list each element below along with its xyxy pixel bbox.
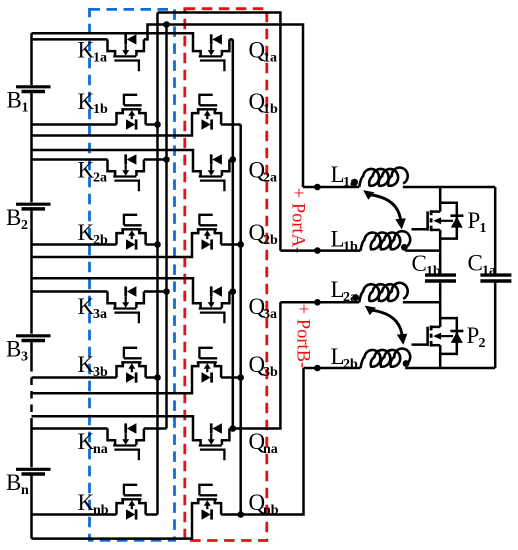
blue dashed box (K switch group) xyxy=(90,9,175,540)
wire K1a riser and top PortA+ run to L1a drop xyxy=(144,25,303,188)
inductor L2b label xyxy=(331,344,359,372)
inductor L1a polarity dot xyxy=(351,179,358,186)
junction bus PortA+ top xyxy=(163,21,170,28)
battery B3 xyxy=(16,336,51,341)
wire battery segment Bn+ (solid part) xyxy=(30,422,33,467)
battery Bn label xyxy=(6,470,29,498)
svg-text:1a: 1a xyxy=(93,50,107,65)
wire Q1a to bus xyxy=(229,38,232,41)
wire C1a bottom xyxy=(494,283,497,368)
transistor P2 label xyxy=(467,323,486,351)
wire K1b to bus xyxy=(146,123,158,126)
label PortA xyxy=(288,188,308,253)
transistor Qna xyxy=(193,423,229,460)
wire L2a output to P2 xyxy=(403,301,440,304)
transistor P2 xyxy=(412,302,464,366)
svg-text:2b: 2b xyxy=(93,233,108,248)
wire node2 rail to Q3a (steps down) xyxy=(32,278,194,291)
svg-text:2a: 2a xyxy=(263,171,277,186)
transistor Qna label xyxy=(249,429,278,457)
svg-text:P: P xyxy=(467,323,480,348)
node PortB- terminal xyxy=(314,365,321,372)
svg-text:nb: nb xyxy=(263,503,279,518)
wire bus PortA- (K b-switch bus) xyxy=(156,13,159,515)
svg-text:n: n xyxy=(21,483,29,498)
inductor L2a polarity dot xyxy=(352,294,359,301)
svg-text:K: K xyxy=(78,220,95,245)
node PortB+ terminal xyxy=(314,299,321,306)
wire L2a input xyxy=(280,301,359,304)
transistor Qnb label xyxy=(249,490,279,518)
wire Qna run to L2a riser xyxy=(233,302,281,428)
transistor K2b label xyxy=(78,220,109,248)
transistor K3b xyxy=(117,348,146,383)
wire C1a top xyxy=(494,187,497,273)
battery Bn xyxy=(16,469,51,474)
junction Q2b-bus xyxy=(237,241,244,248)
transistor P1 xyxy=(412,187,464,251)
wire L1a output to P1 and C1a xyxy=(403,186,495,189)
transistor K1b xyxy=(117,95,146,130)
red dashed box (Q switch group) xyxy=(185,9,267,541)
svg-text:3a: 3a xyxy=(93,307,107,322)
wire battery segment B2- to B3+ xyxy=(30,210,33,333)
wire battery segment B1- to B2+ xyxy=(30,93,33,202)
svg-text:B: B xyxy=(6,337,21,362)
svg-text:na: na xyxy=(263,442,278,457)
svg-text:K: K xyxy=(78,429,95,454)
svg-text:C: C xyxy=(468,251,483,276)
transistor Kna label xyxy=(78,429,108,457)
transistor Q1a xyxy=(193,34,229,71)
transistor Q1b xyxy=(192,95,221,130)
wire node n bottom rail to Qnb (steps up) xyxy=(32,515,193,539)
wire K2b to bus xyxy=(146,243,158,246)
wire L1b output to P1/C1b xyxy=(405,249,440,252)
transistor Qnb xyxy=(192,485,221,520)
battery B1 label xyxy=(7,88,29,116)
svg-text:nb: nb xyxy=(93,503,109,518)
coupled inductor arrow (L1a-L1b) xyxy=(363,190,406,229)
junction K3b-bus xyxy=(154,374,161,381)
inductor L2a xyxy=(359,283,407,302)
svg-text:B: B xyxy=(6,205,21,230)
transistor Q3b xyxy=(192,348,221,383)
transistor K3a xyxy=(108,286,144,323)
transistor K3b label xyxy=(78,352,109,380)
wire L2b output to P2 and C1a xyxy=(405,367,495,370)
svg-text:1a: 1a xyxy=(482,264,496,279)
wire K3a to bus xyxy=(144,290,167,293)
capacitor C1b xyxy=(425,275,456,281)
transistor K1a label xyxy=(78,37,108,65)
svg-text:1b: 1b xyxy=(343,240,358,255)
transistor Knb xyxy=(117,485,146,520)
wire L1b input xyxy=(280,249,360,252)
battery B2 xyxy=(16,204,51,209)
wire C1b top xyxy=(439,251,442,274)
wire battery segment Bn- down to bottom rail xyxy=(30,475,33,538)
wire node2 to K2b xyxy=(32,243,117,246)
svg-text:2: 2 xyxy=(479,336,486,351)
junction Q3a-bus xyxy=(230,288,237,295)
svg-text:3: 3 xyxy=(21,350,28,365)
wire L2b input xyxy=(304,367,361,370)
svg-text:2b: 2b xyxy=(343,357,358,372)
transistor Knb label xyxy=(78,490,109,518)
svg-text:K: K xyxy=(78,89,95,114)
transistor K1a xyxy=(108,34,144,71)
wire node3 to K3b xyxy=(32,376,117,379)
wire Qna to bus xyxy=(229,427,232,430)
node PortA+ terminal xyxy=(314,184,321,191)
svg-text:B: B xyxy=(6,470,21,495)
wire Q3b to bus xyxy=(221,376,241,379)
svg-text:B: B xyxy=(7,88,22,113)
wire K3b to bus xyxy=(146,376,158,379)
transistor P1 label xyxy=(468,208,487,236)
wire node1 rail to Q2a (steps down) xyxy=(32,150,194,160)
transistor K1b label xyxy=(78,89,109,117)
svg-text:K: K xyxy=(78,352,95,377)
transistor Q1a label xyxy=(249,37,278,65)
wire node n to Knb xyxy=(32,513,117,516)
wire Q3a to bus xyxy=(229,290,232,293)
wire Kna to bus xyxy=(144,427,167,430)
wire node1 rail to Q1b (steps up) xyxy=(32,125,193,136)
label PortB xyxy=(293,304,313,368)
svg-text:1a: 1a xyxy=(263,50,277,65)
transistor Kna xyxy=(108,423,144,460)
wire node1 to K1b xyxy=(32,123,117,126)
inductor L1b label xyxy=(331,227,359,255)
wire Q2b to bus xyxy=(221,243,241,246)
wire Qnb to bus xyxy=(221,513,241,516)
wire C1b bottom xyxy=(439,283,442,303)
battery B1 xyxy=(16,87,51,92)
transistor Q3b label xyxy=(249,352,279,380)
inductor L2b xyxy=(361,349,411,368)
svg-text:na: na xyxy=(93,442,108,457)
svg-text:K: K xyxy=(78,158,95,183)
svg-text:2: 2 xyxy=(21,218,28,233)
wire top PortA- run to L1b drop xyxy=(158,13,281,251)
junction K2a-bus xyxy=(163,156,170,163)
capacitor C1a xyxy=(480,275,511,281)
wire P2 source extension xyxy=(439,366,442,368)
wire node2 rail to Q2b (steps up) xyxy=(32,245,193,258)
junction Q2a-bus xyxy=(230,156,237,163)
junction Q3b-bus xyxy=(237,374,244,381)
junction K2b-bus xyxy=(154,241,161,248)
battery B3 label xyxy=(6,337,28,365)
junction K3a-bus xyxy=(163,288,170,295)
svg-text:C: C xyxy=(412,251,427,276)
transistor Q2b label xyxy=(249,220,279,248)
svg-text:1b: 1b xyxy=(263,102,278,117)
transistor Q2a label xyxy=(249,158,278,186)
transistor K2b xyxy=(117,215,146,250)
transistor Q3a xyxy=(193,286,229,323)
transistor Q2b xyxy=(192,215,221,250)
inductor L1a label xyxy=(331,162,358,190)
wire bus PortB- (Q b-switch bus) xyxy=(239,125,242,515)
inductor L1a xyxy=(359,168,407,187)
transistor Q2a xyxy=(193,154,229,191)
wire Q2a to bus xyxy=(229,158,232,161)
svg-text:1: 1 xyxy=(22,101,29,116)
svg-text:1b: 1b xyxy=(426,264,441,279)
inductor L1b polarity dot xyxy=(401,244,408,251)
wire node1 to K2a xyxy=(32,158,108,161)
wire Knb to bus xyxy=(146,513,158,516)
wire battery string segment (B1+ up to node0 corner) xyxy=(30,33,33,85)
svg-text:2a: 2a xyxy=(93,171,107,186)
svg-text:+ PortB-: + PortB- xyxy=(293,304,313,368)
wire node0 to K1a xyxy=(32,38,108,41)
wire battery segment B3- (solid part) xyxy=(30,342,33,364)
wire bus PortA+ (K a-switch bus) xyxy=(165,25,168,429)
capacitor C1b label xyxy=(412,251,442,279)
svg-text:+ PortA-: + PortA- xyxy=(288,188,308,253)
transistor K3a label xyxy=(78,294,108,322)
wire Q1b to bus xyxy=(221,123,241,126)
svg-text:K: K xyxy=(78,490,95,515)
node PortA- terminal xyxy=(314,247,321,254)
wire Qnb run to L2b riser xyxy=(241,368,304,515)
wire battery string continuation (dashed) xyxy=(30,364,33,422)
svg-text:2b: 2b xyxy=(263,233,278,248)
wire K2a to bus xyxy=(144,158,167,161)
junction K1b-bus xyxy=(154,121,161,128)
transistor Q3a label xyxy=(249,294,278,322)
svg-text:K: K xyxy=(78,294,95,319)
junction Qnb-bus xyxy=(237,511,244,518)
wire node n-1 rail to Qna (steps down) xyxy=(32,416,194,428)
wire bus PortB+ (Q a-switch bus) xyxy=(232,39,235,428)
svg-text:P: P xyxy=(468,208,481,233)
svg-text:K: K xyxy=(78,37,95,62)
transistor K2a label xyxy=(78,158,108,186)
wire node2 to K3a xyxy=(32,290,108,293)
svg-text:1: 1 xyxy=(480,221,487,236)
wire L1a input xyxy=(303,186,359,189)
transistor Q1b label xyxy=(249,89,279,117)
wire node n-1 to Kna xyxy=(32,427,108,430)
svg-text:1b: 1b xyxy=(93,102,108,117)
inductor L2b polarity dot xyxy=(403,360,410,367)
wire node0 rail to Q1a (steps down) xyxy=(32,33,194,39)
inductor L2a label xyxy=(331,277,358,305)
wire node3 rail to Q3b (steps up) xyxy=(32,378,193,394)
junction Qna-bus xyxy=(230,425,237,432)
inductor L1b xyxy=(361,231,411,250)
svg-text:3b: 3b xyxy=(93,365,108,380)
transistor K2a xyxy=(108,154,144,191)
svg-text:3b: 3b xyxy=(263,365,278,380)
coupled inductor arrow (L2a-L2b) xyxy=(365,306,408,345)
svg-text:3a: 3a xyxy=(263,307,277,322)
battery B2 label xyxy=(6,205,28,233)
capacitor C1a label xyxy=(468,251,497,279)
